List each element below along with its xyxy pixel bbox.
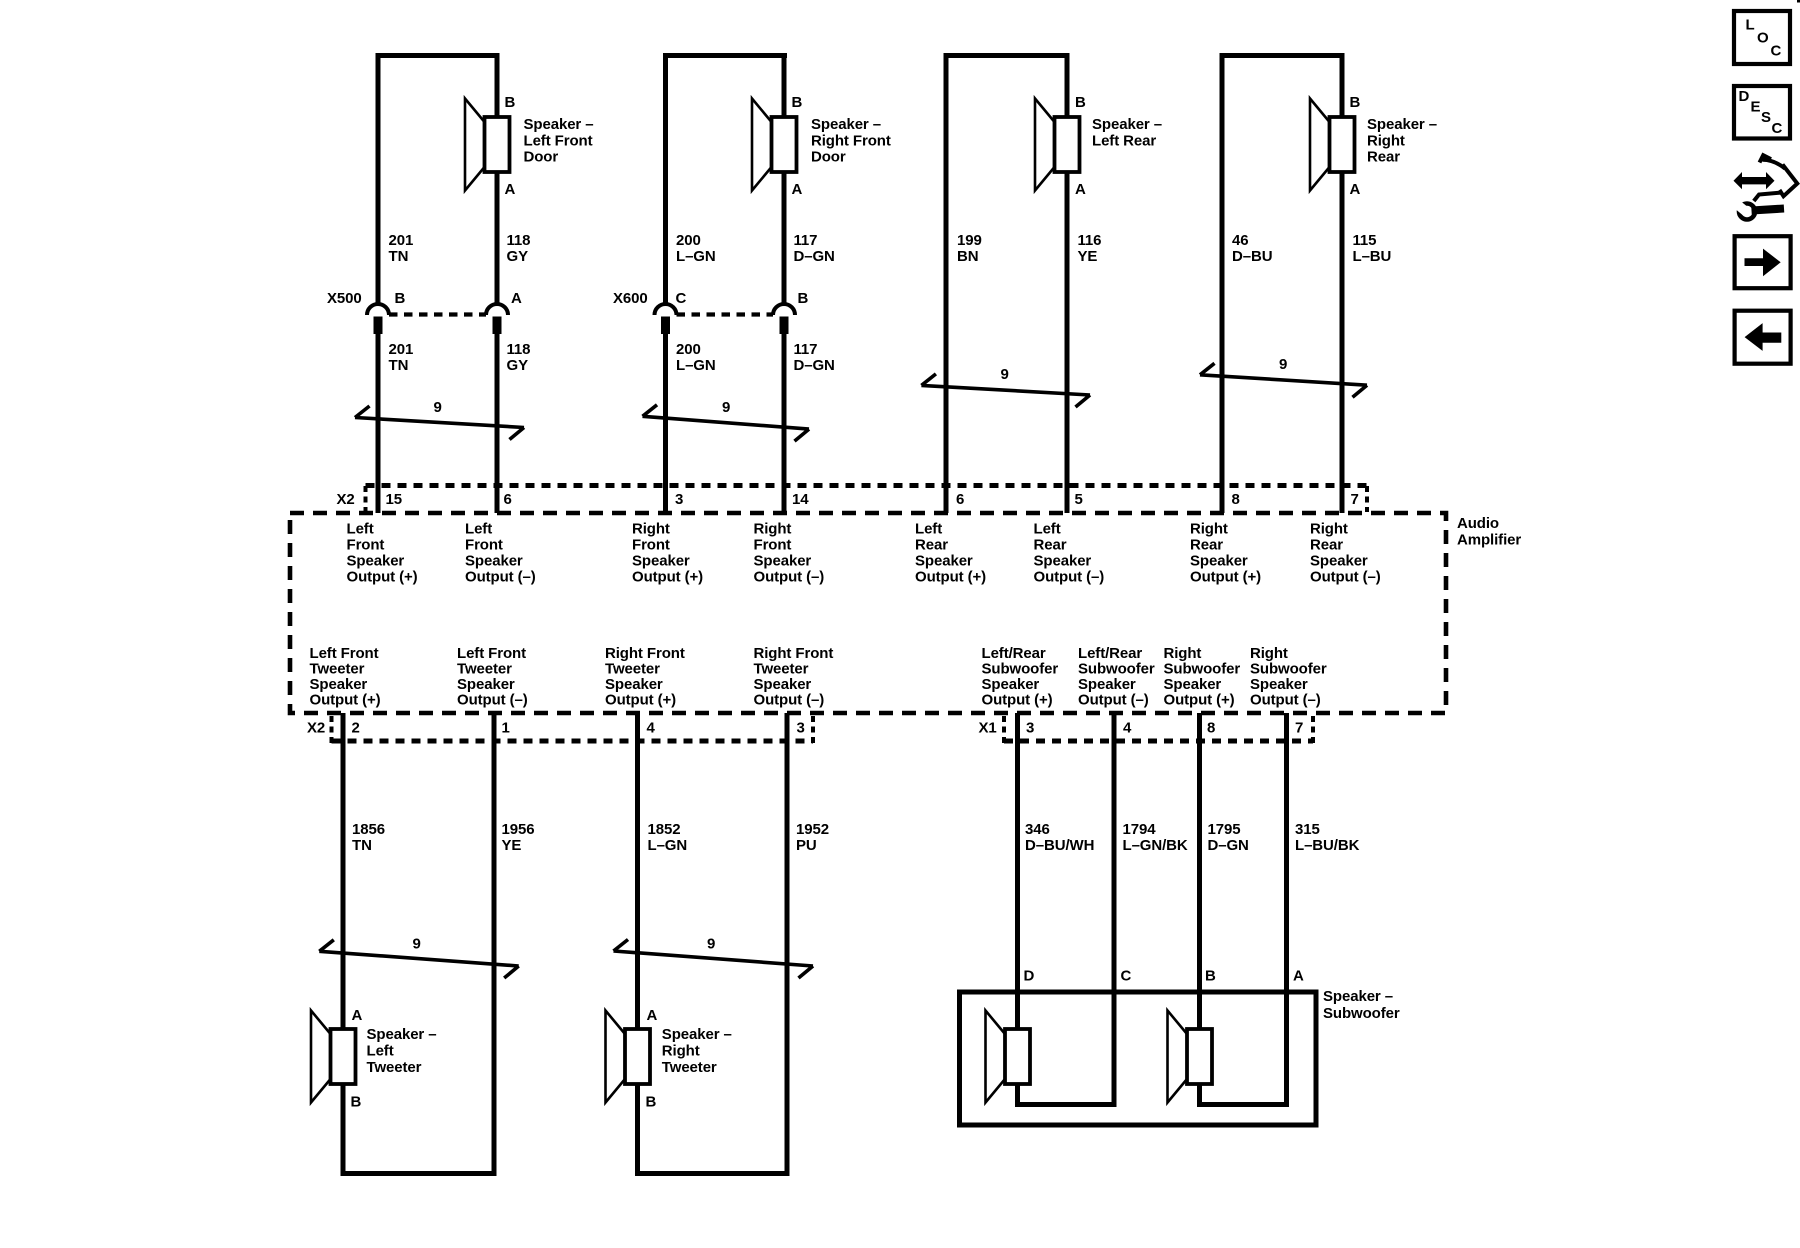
svg-text:O: O — [1757, 30, 1769, 47]
svg-text:LeftFrontSpeakerOutput (+): LeftFrontSpeakerOutput (+) — [347, 521, 418, 586]
svg-text:Left FrontTweeterSpeakerOutput: Left FrontTweeterSpeakerOutput (+) — [310, 645, 381, 709]
svg-text:1: 1 — [502, 720, 510, 737]
svg-text:AudioAmplifier: AudioAmplifier — [1457, 515, 1521, 549]
audio amplifier dashed outline — [290, 513, 1446, 713]
connector X2 bottom right bracket — [811, 716, 815, 743]
svg-text:8: 8 — [1207, 720, 1215, 737]
svg-text:RightRearSpeakerOutput (+): RightRearSpeakerOutput (+) — [1190, 521, 1261, 586]
twisted pair marker tweeter right — [614, 940, 814, 979]
svg-text:A: A — [352, 1007, 363, 1024]
wire top link right front door — [663, 53, 787, 58]
wire top link left rear — [944, 53, 1070, 58]
icon direction double arrow — [1734, 172, 1775, 189]
svg-text:9: 9 — [707, 935, 715, 952]
icon left arrow box — [1735, 311, 1791, 364]
svg-text:201TN: 201TN — [389, 341, 414, 374]
wire left rear speaker (-) lower 116 YE — [1065, 172, 1070, 513]
svg-text:1794L–GN/BK: 1794L–GN/BK — [1123, 821, 1188, 854]
svg-text:Left/RearSubwooferSpeakerOutpu: Left/RearSubwooferSpeakerOutput (–) — [1078, 645, 1155, 709]
svg-text:14: 14 — [792, 491, 809, 508]
svg-text:6: 6 — [956, 491, 964, 508]
connector X2 top dotted line — [366, 483, 1368, 488]
svg-text:X600: X600 — [613, 290, 648, 307]
svg-text:Left/RearSubwooferSpeakerOutpu: Left/RearSubwooferSpeakerOutput (+) — [982, 645, 1059, 709]
corner mark — [1797, 0, 1800, 3]
svg-text:201TN: 201TN — [389, 232, 414, 265]
connector X2 top right bracket — [1365, 486, 1369, 512]
svg-text:117D–GN: 117D–GN — [794, 341, 835, 374]
speaker - subwoofer 1 — [986, 1011, 1031, 1103]
wire right front speaker (-) lower to X600 — [782, 172, 787, 304]
svg-text:118GY: 118GY — [507, 341, 531, 374]
connector X1 right bracket — [1311, 716, 1315, 743]
wire sub1 below speaker — [1015, 1084, 1020, 1107]
svg-text:117D–GN: 117D–GN — [794, 232, 835, 265]
wire 1856 TN below tweeter — [341, 1084, 346, 1176]
svg-text:B: B — [792, 94, 803, 111]
speaker - left tweeter — [311, 1011, 356, 1103]
svg-text:15: 15 — [386, 491, 403, 508]
wire 1956 YE tweeter left (-) — [492, 713, 497, 1176]
svg-text:Speaker –Right FrontDoor: Speaker –Right FrontDoor — [811, 116, 891, 166]
svg-text:A: A — [1350, 181, 1361, 198]
svg-text:B: B — [351, 1093, 362, 1110]
connector X1 dotted line — [1004, 739, 1313, 744]
svg-text:3: 3 — [675, 491, 683, 508]
svg-text:1952PU: 1952PU — [796, 821, 829, 854]
svg-text:115L–BU: 115L–BU — [1353, 232, 1392, 265]
svg-text:4: 4 — [647, 720, 656, 737]
svg-text:L: L — [1746, 17, 1755, 34]
svg-text:X1: X1 — [979, 720, 997, 737]
svg-text:B: B — [505, 94, 516, 111]
svg-text:9: 9 — [1001, 366, 1009, 383]
wire 1795 D-GN sub (+) — [1197, 713, 1202, 1029]
svg-text:A: A — [1075, 181, 1086, 198]
connector X500 cavity B — [367, 304, 389, 334]
wire 118 below X500 — [495, 334, 500, 513]
wire 1852 L-GN tweeter right (+) — [635, 713, 640, 1029]
svg-text:D: D — [1739, 88, 1750, 105]
wire right rear speaker (+) 46 D-BU — [1220, 53, 1225, 513]
svg-text:LeftRearSpeakerOutput (–): LeftRearSpeakerOutput (–) — [1034, 521, 1105, 586]
svg-text:Speaker –Subwoofer: Speaker –Subwoofer — [1323, 988, 1400, 1022]
svg-text:RightSubwooferSpeakerOutput (+: RightSubwooferSpeakerOutput (+) — [1164, 645, 1241, 709]
svg-text:B: B — [1350, 94, 1361, 111]
svg-text:200L–GN: 200L–GN — [676, 232, 716, 265]
svg-text:A: A — [647, 1007, 658, 1024]
svg-text:B: B — [798, 290, 809, 307]
svg-text:LeftRearSpeakerOutput (+): LeftRearSpeakerOutput (+) — [915, 521, 986, 586]
svg-text:8: 8 — [1232, 491, 1240, 508]
wire left front speaker (-) lower to X500 — [495, 172, 500, 304]
svg-text:RightRearSpeakerOutput (–): RightRearSpeakerOutput (–) — [1310, 521, 1381, 586]
svg-text:RightSubwooferSpeakerOutput (–: RightSubwooferSpeakerOutput (–) — [1250, 645, 1327, 709]
svg-text:7: 7 — [1351, 491, 1359, 508]
wire right front speaker (-) upper 117 D-GN — [782, 53, 787, 117]
speaker - left front door — [465, 99, 510, 191]
svg-text:A: A — [511, 290, 522, 307]
wire 117 below X600 — [782, 334, 787, 513]
wire left rear speaker (+) 199 BN — [944, 53, 949, 513]
connector X600 cavity B — [773, 304, 795, 334]
wire left front speaker (+) circuit 201 TN — [376, 53, 381, 304]
svg-text:315L–BU/BK: 315L–BU/BK — [1295, 821, 1360, 854]
subwoofer enclosure box — [960, 992, 1317, 1125]
svg-text:B: B — [646, 1093, 657, 1110]
svg-text:4: 4 — [1123, 720, 1132, 737]
icon wrench — [1734, 201, 1785, 220]
wire right front speaker (+) circuit 200 L-GN — [663, 53, 668, 304]
svg-text:9: 9 — [1279, 356, 1287, 373]
icon curved outline arrow — [1754, 155, 1798, 201]
svg-text:118GY: 118GY — [507, 232, 531, 265]
svg-text:X2: X2 — [337, 491, 355, 508]
svg-text:46D–BU: 46D–BU — [1232, 232, 1272, 265]
svg-text:3: 3 — [797, 720, 805, 737]
svg-text:C: C — [676, 290, 687, 307]
svg-text:Left FrontTweeterSpeakerOutput: Left FrontTweeterSpeakerOutput (–) — [457, 645, 528, 709]
twisted pair marker rear right — [1200, 363, 1367, 397]
svg-text:Speaker –Left Rear: Speaker –Left Rear — [1092, 116, 1162, 149]
svg-text:RightFrontSpeakerOutput (+): RightFrontSpeakerOutput (+) — [632, 521, 703, 586]
svg-text:Speaker –LeftTweeter: Speaker –LeftTweeter — [367, 1026, 437, 1076]
connector X2 bottom left bracket — [330, 716, 334, 743]
icon LOC box — [1734, 11, 1790, 64]
wire left front speaker (-) upper 118 GY — [495, 53, 500, 117]
svg-text:346D–BU/WH: 346D–BU/WH — [1025, 821, 1094, 854]
svg-text:9: 9 — [434, 399, 442, 416]
svg-text:C: C — [1771, 43, 1782, 60]
svg-text:Right FrontTweeterSpeakerOutpu: Right FrontTweeterSpeakerOutput (–) — [754, 645, 834, 709]
svg-text:A: A — [505, 181, 516, 198]
speaker - right front door — [752, 99, 797, 191]
wire 201 below X500 — [376, 334, 381, 513]
twisted pair marker rear left — [921, 374, 1090, 407]
svg-text:C: C — [1121, 968, 1132, 985]
wire top link left front door — [376, 53, 500, 58]
svg-text:1852L–GN: 1852L–GN — [648, 821, 688, 854]
icon right arrow box — [1735, 236, 1791, 288]
svg-text:116YE: 116YE — [1078, 232, 1102, 265]
connector X2 bottom dotted line — [332, 739, 814, 744]
wire X500 dashed link — [389, 312, 486, 316]
twisted pair marker front right — [643, 405, 810, 441]
svg-text:D: D — [1024, 968, 1035, 985]
twisted pair marker tweeter left — [319, 940, 518, 978]
svg-text:Right FrontTweeterSpeakerOutpu: Right FrontTweeterSpeakerOutput (+) — [605, 645, 685, 709]
wire 315 L-BU/BK sub (-) — [1284, 713, 1289, 1107]
svg-text:7: 7 — [1295, 720, 1303, 737]
svg-text:B: B — [395, 290, 406, 307]
svg-text:Speaker –RightTweeter: Speaker –RightTweeter — [662, 1026, 732, 1076]
wire tweeter left bottom link — [341, 1171, 497, 1176]
wire X600 dashed link — [677, 312, 774, 316]
svg-text:B: B — [1075, 94, 1086, 111]
svg-text:1856TN: 1856TN — [352, 821, 385, 854]
svg-text:X500: X500 — [327, 290, 362, 307]
wire sub2 bottom link — [1197, 1102, 1289, 1107]
svg-text:9: 9 — [722, 399, 730, 416]
svg-text:199BN: 199BN — [957, 232, 982, 265]
svg-text:X2: X2 — [307, 720, 325, 737]
svg-text:RightFrontSpeakerOutput (–): RightFrontSpeakerOutput (–) — [754, 521, 825, 586]
wire right rear speaker (-) lower 115 L-BU — [1340, 172, 1345, 513]
connector X1 left bracket — [1002, 716, 1006, 744]
svg-text:C: C — [1772, 120, 1783, 137]
connector X600 cavity C — [655, 304, 677, 334]
svg-text:B: B — [1205, 968, 1216, 985]
wire tweeter right bottom link — [635, 1171, 790, 1176]
wire right rear speaker (-) upper 115 L-BU — [1340, 53, 1345, 117]
connector X500 cavity A — [486, 304, 508, 334]
svg-text:3: 3 — [1026, 720, 1034, 737]
speaker - subwoofer 2 — [1168, 1011, 1213, 1103]
speaker - right rear — [1310, 99, 1355, 191]
wire top link right rear — [1220, 53, 1345, 58]
svg-text:5: 5 — [1075, 491, 1083, 508]
svg-text:6: 6 — [504, 491, 512, 508]
svg-text:9: 9 — [413, 935, 421, 952]
connector X2 top left bracket — [364, 486, 368, 512]
wire 200 below X600 — [663, 334, 668, 513]
twisted pair marker front left — [355, 406, 524, 440]
wire 1852 below tweeter — [635, 1084, 640, 1176]
wire 1856 TN tweeter left (+) — [341, 713, 346, 1029]
wire 1794 L-GN/BK sub (-) — [1112, 713, 1117, 1107]
wire sub1 bottom link — [1015, 1102, 1117, 1107]
speaker - right tweeter — [606, 1011, 651, 1103]
svg-text:S: S — [1761, 109, 1771, 126]
svg-text:200L–GN: 200L–GN — [676, 341, 716, 374]
svg-text:1795D–GN: 1795D–GN — [1208, 821, 1249, 854]
svg-text:Speaker –Left FrontDoor: Speaker –Left FrontDoor — [524, 116, 594, 166]
svg-text:2: 2 — [352, 720, 360, 737]
svg-text:1956YE: 1956YE — [502, 821, 535, 854]
wire 1952 PU tweeter right (-) — [785, 713, 790, 1176]
svg-text:A: A — [1293, 968, 1304, 985]
speaker - left rear — [1035, 99, 1080, 191]
wire sub2 below speaker — [1197, 1084, 1202, 1107]
svg-text:A: A — [792, 181, 803, 198]
wire left rear speaker (-) upper 116 YE — [1065, 53, 1070, 117]
svg-text:Speaker –RightRear: Speaker –RightRear — [1367, 116, 1437, 166]
wire 346 D-BU/WH sub (+) — [1015, 713, 1020, 1029]
svg-text:E: E — [1751, 98, 1761, 115]
svg-text:LeftFrontSpeakerOutput (–): LeftFrontSpeakerOutput (–) — [465, 521, 536, 586]
icon DESC box — [1734, 86, 1790, 139]
